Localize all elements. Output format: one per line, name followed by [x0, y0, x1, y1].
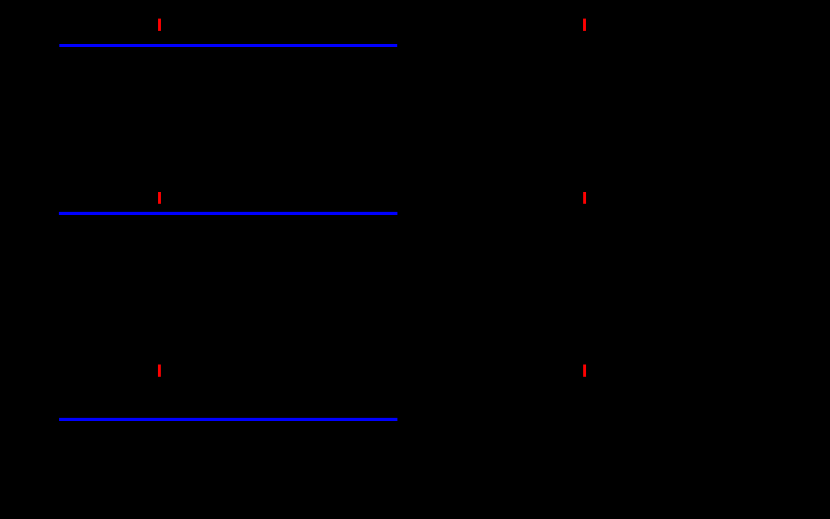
red marker tick row 2 right: [583, 192, 586, 204]
red marker tick row 3 left: [158, 365, 161, 377]
blue data line row 2 left: [59, 212, 398, 215]
red marker tick row 3 right: [583, 365, 586, 377]
red marker tick row 1 left: [158, 19, 161, 31]
red marker tick row 2 left: [158, 192, 161, 204]
blue data line row 3 left: [59, 418, 397, 421]
blue data line row 1 left: [59, 44, 397, 47]
red marker tick row 1 right: [583, 19, 586, 31]
